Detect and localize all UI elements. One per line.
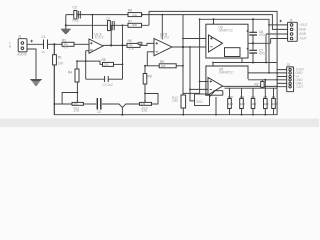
svg-text:R1: R1 (58, 56, 62, 60)
svg-text:R3: R3 (62, 38, 66, 42)
svg-text:R: R (9, 45, 12, 49)
svg-text:47K: 47K (64, 44, 69, 47)
svg-text:10K: 10K (58, 62, 65, 66)
svg-text:GND: GND (299, 32, 307, 36)
svg-text:100p: 100p (72, 19, 79, 23)
svg-text:R11: R11 (240, 95, 245, 99)
svg-text:47K: 47K (141, 103, 146, 106)
svg-text:10R: 10R (264, 102, 269, 106)
svg-text:R9: R9 (251, 95, 255, 99)
svg-text:47K: 47K (142, 109, 149, 113)
svg-text:J2: J2 (289, 19, 293, 23)
svg-text:R5: R5 (102, 58, 106, 62)
svg-text:10R: 10R (228, 102, 233, 106)
svg-text:10R: 10R (252, 102, 257, 106)
svg-text:10R: 10R (272, 102, 277, 106)
svg-text:10K: 10K (161, 65, 166, 68)
svg-text:1R0: 1R0 (172, 99, 178, 103)
svg-text:R6: R6 (272, 95, 276, 99)
svg-text:R8: R8 (128, 39, 132, 43)
svg-text:+OUT: +OUT (299, 23, 308, 27)
svg-text:GM4872C: GM4872C (219, 29, 234, 33)
svg-text:GND: GND (299, 28, 307, 32)
svg-text:100K: 100K (132, 14, 138, 17)
svg-text:R7: R7 (128, 19, 132, 23)
svg-text:J3: J3 (287, 63, 291, 67)
svg-text:TL072: TL072 (95, 36, 104, 40)
svg-text:AUDIO: AUDIO (17, 53, 28, 57)
svg-text:47K: 47K (74, 103, 79, 106)
svg-text:R8: R8 (264, 95, 268, 99)
svg-text:-OUT: -OUT (299, 37, 307, 41)
svg-text:GM4872C: GM4872C (219, 71, 234, 75)
svg-text:-OUT: -OUT (296, 85, 304, 89)
svg-text:C2: C2 (106, 17, 110, 21)
svg-text:C5: C5 (97, 110, 101, 114)
svg-text:1u: 1u (42, 50, 46, 54)
svg-text:J1: J1 (18, 35, 22, 39)
svg-text:SW1: SW1 (196, 100, 203, 104)
svg-text:C2 2u2: C2 2u2 (103, 83, 114, 87)
svg-text:470u: 470u (259, 33, 266, 37)
svg-text:R9: R9 (160, 60, 164, 64)
svg-text:47K: 47K (74, 109, 81, 113)
svg-text:R4: R4 (68, 71, 72, 75)
svg-text:R10: R10 (228, 95, 233, 99)
svg-text:47K: 47K (129, 45, 134, 48)
svg-text:R2: R2 (255, 83, 259, 87)
svg-text:TL072: TL072 (160, 35, 169, 39)
svg-text:22K: 22K (104, 64, 109, 67)
svg-text:10R: 10R (240, 102, 245, 106)
svg-text:100K: 100K (132, 24, 138, 27)
svg-text:470u: 470u (259, 52, 266, 56)
svg-text:C1: C1 (42, 35, 46, 39)
svg-text:R8: R8 (148, 75, 152, 79)
svg-text:C3: C3 (73, 6, 77, 10)
svg-text:R6: R6 (128, 9, 132, 13)
